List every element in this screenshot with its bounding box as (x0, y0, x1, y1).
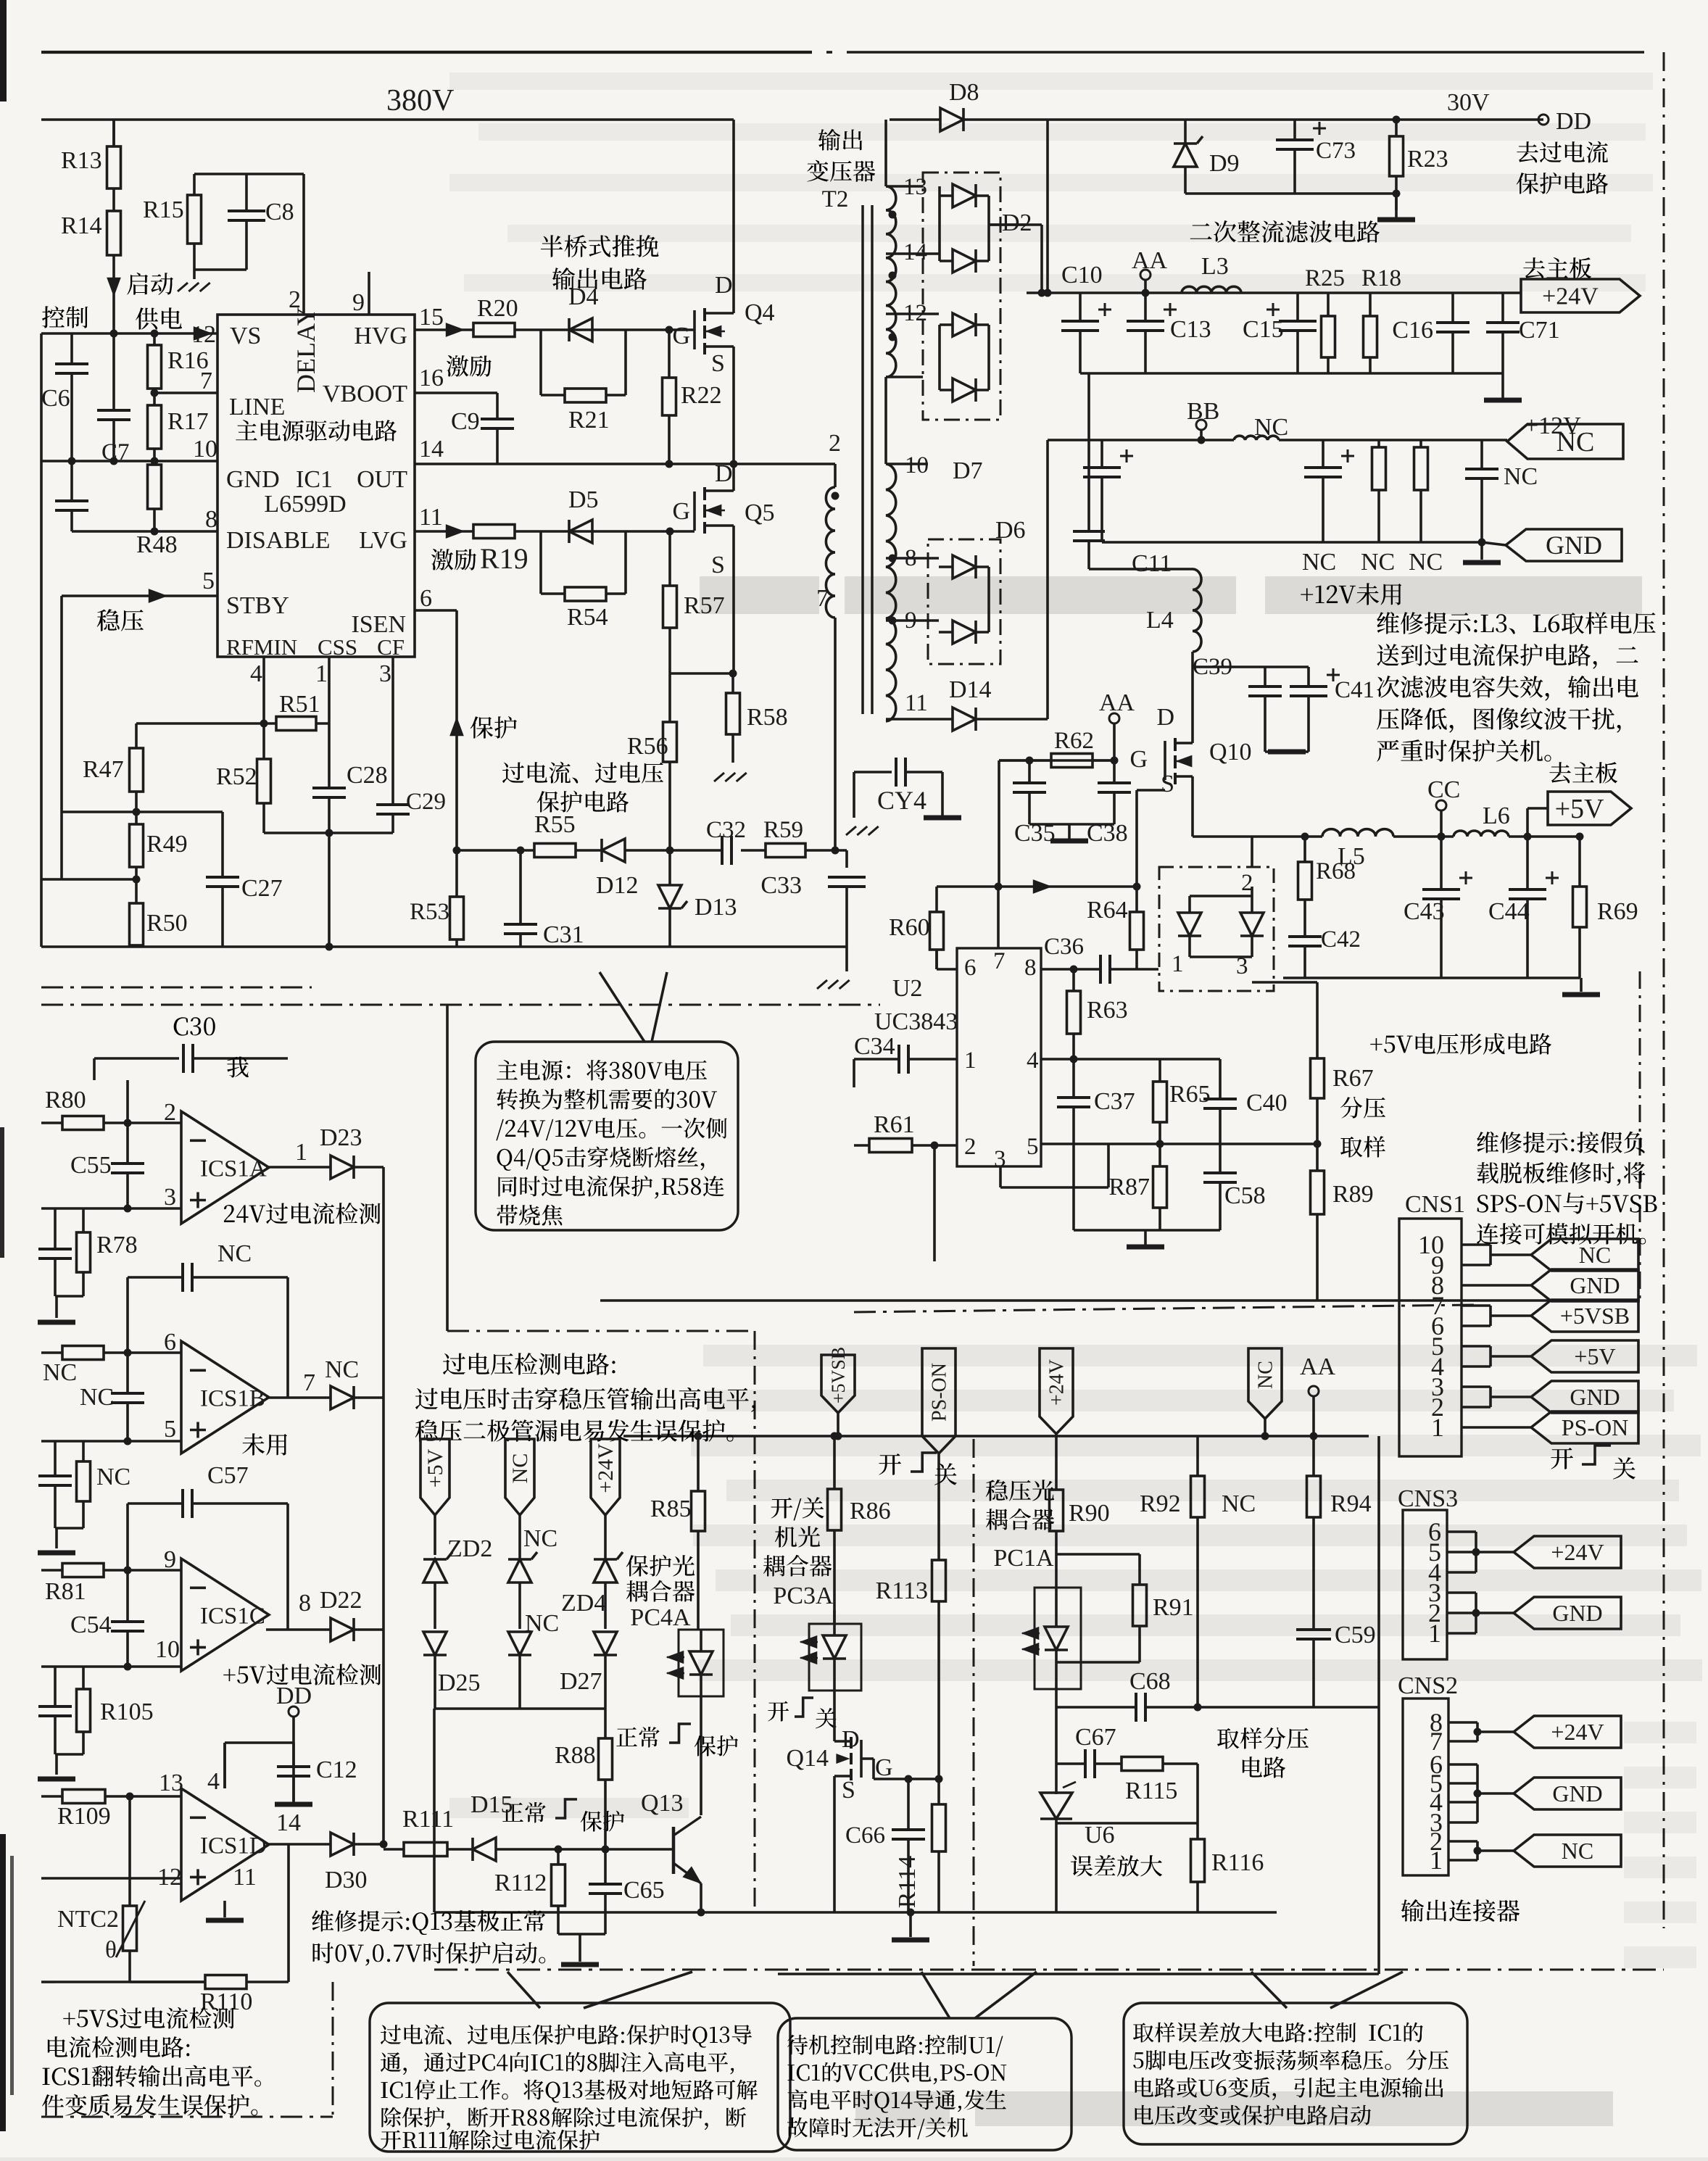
svg-text:2: 2 (829, 430, 841, 457)
svg-text:ZD4: ZD4 (561, 1590, 606, 1617)
wire D2/D7 output to 24V node (989, 223, 1042, 226)
wire ICS1D pin4 stub up (223, 1743, 226, 1788)
svg-text:NTC2: NTC2 (57, 1906, 119, 1933)
svg-text:R109: R109 (57, 1803, 111, 1830)
svg-text:NC: NC (325, 1356, 359, 1383)
node BB (1196, 420, 1206, 430)
svg-text:C40: C40 (1246, 1090, 1288, 1116)
svg-text:7: 7 (993, 948, 1006, 974)
svg-text:C58: C58 (1224, 1182, 1266, 1209)
svg-text:S: S (711, 350, 725, 377)
svg-text:R49: R49 (146, 831, 188, 858)
svg-text:6: 6 (164, 1329, 176, 1356)
wire R15/C8 frame to DELAY pin 2 (194, 173, 304, 175)
svg-text:R13: R13 (61, 147, 102, 174)
svg-text:R15: R15 (143, 196, 184, 223)
wire 5V filter bottom rail (1283, 976, 1580, 979)
svg-text:ICS1A: ICS1A (200, 1156, 267, 1182)
svg-text:R88: R88 (555, 1742, 596, 1769)
svg-text:NC: NC (508, 1453, 532, 1484)
svg-text:6: 6 (420, 585, 432, 612)
wire pin8 line through C36 (1041, 968, 1100, 971)
svg-text:D14: D14 (949, 676, 992, 703)
overvoltage detect text (443, 1353, 615, 1374)
wire pin10 line (41, 1665, 181, 1668)
wire PC4A to Q13 collector (700, 1696, 702, 1815)
label overcurrent/overvoltage block (502, 762, 663, 784)
resistor R19 series (472, 530, 475, 533)
wire pin9 stub (368, 272, 370, 315)
capacitor C13 electrolytic (1144, 293, 1147, 321)
wire C30 box corner (93, 1058, 96, 1080)
wire primary ground rail (41, 945, 847, 948)
svg-text:L4: L4 (1146, 607, 1174, 634)
wire ICS1D output (266, 1843, 330, 1846)
svg-text:C37: C37 (1094, 1088, 1135, 1115)
svg-text:+5V: +5V (423, 1448, 447, 1488)
svg-text:R67: R67 (1332, 1065, 1374, 1092)
svg-text:R55: R55 (534, 811, 576, 838)
flag +24V rotated (1040, 1348, 1073, 1434)
svg-text:C66: C66 (845, 1822, 885, 1849)
svg-text:R52: R52 (216, 763, 257, 790)
wire Q14 gate to R113/R114 node (861, 1757, 874, 1760)
node DD (1538, 115, 1549, 125)
wire Q5 source sense line (670, 672, 734, 675)
svg-text:PC3A: PC3A (773, 1583, 834, 1609)
svg-text:D7: D7 (953, 457, 983, 484)
svg-text:NC: NC (523, 1525, 557, 1552)
svg-text:R51: R51 (279, 691, 320, 718)
svg-text:ICS1C: ICS1C (200, 1604, 265, 1630)
svg-text:R59: R59 (763, 817, 803, 843)
wire 380V bus (41, 118, 734, 121)
bleed rows bottom-left under text (449, 1798, 689, 1818)
svg-text:2: 2 (964, 1134, 977, 1160)
wire AA/R62 network top (999, 759, 1114, 762)
flag +5V rotated zd2 (420, 1439, 449, 1515)
label 24V to mainboard (1523, 257, 1591, 278)
svg-text:R90: R90 (1069, 1500, 1110, 1527)
label 24V overcurrent detect (224, 1203, 381, 1224)
wire R51 left loop to R47 (136, 722, 264, 725)
wire control line into VS pin 12 (41, 332, 217, 335)
svg-text:NC: NC (1579, 1242, 1611, 1268)
svg-text:+24V: +24V (594, 1443, 618, 1493)
svg-text:NC: NC (1562, 1838, 1593, 1864)
wire 24V filter bottom rail (1080, 372, 1503, 375)
svg-text:R69: R69 (1597, 898, 1638, 925)
wire C11 to L4 (1089, 568, 1193, 571)
diode D16 right (1240, 913, 1264, 936)
svg-text:R16: R16 (167, 347, 209, 374)
svg-text:Q4: Q4 (745, 299, 775, 326)
svg-text:D25: D25 (438, 1670, 481, 1696)
rectifier D7 diode pair 1 (953, 313, 976, 336)
resistor 12V NC 1 (1377, 440, 1380, 447)
bleed-through faint table rows (449, 72, 1653, 90)
wire VCC feed line with arrow (937, 885, 1137, 888)
svg-text:VS: VS (230, 323, 261, 349)
svg-text:D15: D15 (470, 1791, 513, 1818)
svg-text:CF: CF (377, 634, 405, 660)
svg-text:NC: NC (43, 1359, 77, 1386)
svg-text:θ: θ (105, 1937, 117, 1963)
label +5V overcurrent detect (223, 1664, 381, 1685)
svg-text:CNS1: CNS1 (1405, 1191, 1465, 1218)
svg-text:C15: C15 (1243, 316, 1284, 343)
svg-text:NC: NC (80, 1384, 114, 1411)
ground below R23 (1377, 217, 1415, 223)
svg-text:4: 4 (1027, 1048, 1039, 1074)
svg-text:VBOOT: VBOOT (323, 381, 407, 407)
callout leader sampling (1251, 1972, 1287, 2008)
wire 12V rectified vertical (1046, 440, 1049, 719)
wire +5V flag stem (1527, 807, 1548, 810)
svg-text:R116: R116 (1211, 1849, 1264, 1876)
svg-text:R48: R48 (136, 531, 178, 558)
wire ICS1D pin11 ground (223, 1901, 226, 1917)
wire pin7 stub up (997, 887, 1000, 948)
page top rule (41, 51, 812, 54)
label jili 1 (447, 355, 492, 376)
CNS3 +24V flag (1447, 1530, 1476, 1533)
svg-text:Q14: Q14 (786, 1745, 829, 1772)
resistor 12V NC 2 (1419, 440, 1422, 447)
wire trafo bottom / C33 (845, 850, 848, 868)
rectifier D6 diode 2 (953, 621, 976, 644)
svg-text:C12: C12 (316, 1756, 357, 1783)
svg-text:PC1A: PC1A (993, 1545, 1054, 1572)
label sampling divider (1217, 1727, 1309, 1749)
svg-text:PS-ON: PS-ON (929, 1363, 951, 1422)
svg-text:LVG: LVG (359, 527, 407, 554)
op-amp IC1 L6599D main driver box (217, 315, 415, 657)
node AA sampling (1309, 1386, 1319, 1396)
label +5VS overcurrent (63, 2007, 234, 2029)
svg-text:R14: R14 (61, 212, 102, 239)
wire D16 to L5 rail (1251, 837, 1253, 867)
svg-text:ICS1B: ICS1B (200, 1386, 265, 1412)
svg-text:C42: C42 (1321, 926, 1361, 953)
section divider dash-dot (upper left) (41, 987, 312, 989)
svg-text:8: 8 (205, 506, 217, 533)
svg-text:CC: CC (1427, 776, 1460, 803)
wire Q4 drain drop (732, 120, 735, 308)
svg-text:12: 12 (191, 321, 216, 348)
svg-text:L3: L3 (1201, 253, 1229, 280)
svg-text:C10: C10 (1061, 262, 1103, 289)
svg-text:R47: R47 (83, 756, 124, 783)
label +5V forming circuit (1370, 1033, 1551, 1055)
CNS3 GND flag (1447, 1591, 1476, 1594)
svg-text:380V: 380V (386, 84, 454, 117)
wire R61 junction down (933, 1145, 936, 1261)
svg-text:NC: NC (217, 1240, 252, 1267)
wire STBY pin5 (62, 594, 217, 597)
svg-text:U2: U2 (892, 975, 923, 1002)
wire DISABLE pin8 line (72, 530, 217, 533)
svg-text:NC: NC (1409, 549, 1443, 576)
wire startup drop (112, 120, 115, 146)
diode D16 dashed box (1159, 867, 1274, 991)
bottom divider dash-dot (434, 1969, 1664, 1971)
label qidong (127, 273, 173, 295)
capacitor C30 series (174, 1017, 215, 1035)
svg-text:R78: R78 (96, 1232, 138, 1258)
svg-text:R113: R113 (876, 1577, 928, 1604)
label half-bridge block (541, 235, 659, 257)
svg-text:1: 1 (964, 1048, 977, 1074)
wire HVG pin15 to gate Q4 (415, 328, 473, 331)
node AA near C13 (1140, 270, 1151, 280)
svg-text:7: 7 (303, 1369, 315, 1396)
svg-text:R23: R23 (1407, 146, 1448, 173)
flag +24V rotated zd4 (591, 1439, 620, 1515)
flag GND 12V (1506, 529, 1622, 561)
ground at right of primary rail (817, 980, 827, 989)
CNS2 GND flag (1448, 1763, 1477, 1766)
svg-text:D12: D12 (596, 872, 639, 899)
svg-text:NC: NC (1222, 1490, 1256, 1517)
flag NC rotated (1248, 1348, 1282, 1419)
svg-text:GND: GND (1552, 1600, 1602, 1626)
wire R67 tap to U2 (1220, 1142, 1317, 1145)
wire C39/C41 top link (1193, 665, 1309, 668)
wire pin6 stub (935, 950, 938, 969)
CNS1 GND flag 2 (1462, 1385, 1491, 1388)
wire sampling divider top rail (974, 1435, 1369, 1438)
svg-text:C8: C8 (265, 199, 294, 225)
svg-text:5: 5 (1027, 1134, 1039, 1160)
transformer T2 secondary winding lower (884, 377, 887, 464)
ground below R58 (714, 773, 724, 781)
label secondary rectifier block (1190, 220, 1380, 243)
svg-text:S: S (1161, 771, 1174, 797)
wire current sense bus (457, 849, 534, 852)
svg-text:14: 14 (276, 1809, 301, 1836)
rectifier D2 diode pair 2 (953, 249, 976, 273)
svg-text:C43: C43 (1404, 898, 1445, 925)
svg-text:1: 1 (1172, 951, 1184, 977)
svg-text:R61: R61 (874, 1111, 915, 1138)
svg-text:R65: R65 (1169, 1081, 1211, 1108)
svg-text:R17: R17 (167, 408, 209, 435)
svg-text:R80: R80 (45, 1087, 86, 1113)
wire ISEN protection vertical (455, 610, 458, 850)
wire R113 bottom (937, 1601, 940, 1779)
wire pin4 net (1041, 1058, 1220, 1061)
svg-text:D30: D30 (325, 1867, 368, 1894)
optocoupler PC1A LED (1035, 1588, 1081, 1689)
svg-text:3: 3 (164, 1184, 176, 1211)
svg-text:C28: C28 (347, 762, 388, 789)
svg-text:R105: R105 (100, 1698, 154, 1725)
wire junction R47/R49 (133, 808, 141, 816)
svg-text:AA: AA (1300, 1353, 1336, 1380)
svg-text:4: 4 (250, 660, 262, 687)
rectifier D6 diode 1 (953, 555, 976, 578)
repair tip Q13 base (312, 1910, 545, 1935)
svg-text:C34: C34 (854, 1033, 895, 1060)
svg-text:+24V: +24V (1551, 1719, 1604, 1745)
capacitor below C7 on disable line (70, 461, 73, 501)
ground 24V filter (1501, 373, 1504, 400)
svg-text:RFMIN: RFMIN (226, 634, 297, 660)
svg-text:R54: R54 (567, 604, 608, 631)
svg-text:R115: R115 (1125, 1778, 1177, 1804)
svg-text:GND: GND (1570, 1272, 1620, 1298)
wire D16 bottoms (1190, 955, 1252, 958)
svg-text:Q5: Q5 (745, 499, 775, 526)
svg-text:NC: NC (1361, 549, 1395, 576)
zener NC mid (508, 1559, 531, 1583)
svg-text:+24V: +24V (1542, 283, 1599, 310)
svg-text:D2: D2 (1002, 210, 1032, 236)
wire pin5 net (1041, 1142, 1220, 1145)
wire startup arrow (112, 255, 115, 333)
svg-text:2: 2 (164, 1099, 176, 1126)
svg-text:CNS2: CNS2 (1398, 1672, 1458, 1699)
svg-text:+5VSB: +5VSB (828, 1347, 849, 1403)
callout box protect circuit (370, 2003, 790, 2152)
svg-text:11: 11 (233, 1864, 257, 1891)
label to mainboard +5V (1549, 762, 1617, 783)
svg-text:D: D (1156, 704, 1174, 731)
svg-text:C13: C13 (1170, 316, 1211, 343)
svg-text:−: − (40, 1966, 57, 1999)
svg-text:C68: C68 (1129, 1668, 1171, 1695)
CNS1 +5VSB flag (1462, 1304, 1491, 1307)
wire VBOOT pin16 and C9 (415, 391, 497, 394)
label switch opto (771, 1497, 824, 1520)
svg-text:R18: R18 (1361, 265, 1401, 291)
wire R62 branch vertical (998, 760, 1000, 887)
svg-text:G: G (1129, 746, 1148, 773)
svg-text:GND: GND (1546, 531, 1602, 560)
svg-text:T2: T2 (822, 186, 849, 212)
wire OUT pin14 node line (415, 463, 835, 465)
step label normal/protect 1 (616, 1727, 660, 1748)
callout box standby control (778, 2018, 1071, 2150)
svg-text:C65: C65 (623, 1877, 665, 1904)
callout box sampling error amp (1124, 2003, 1467, 2144)
wire VCC top rail to opto columns (623, 1435, 974, 1438)
svg-text:C59: C59 (1335, 1622, 1376, 1648)
wire C35/C38 bottom with ground (1029, 823, 1114, 826)
svg-text:R21: R21 (568, 407, 610, 434)
svg-text:D22: D22 (320, 1587, 362, 1614)
svg-text:HVG: HVG (354, 323, 407, 349)
svg-text:C41: C41 (1335, 677, 1375, 703)
svg-text:R112: R112 (494, 1870, 547, 1896)
wire D23 bus to top (446, 1005, 449, 1331)
svg-text:L6599D: L6599D (264, 491, 346, 518)
transformer T2 primary winding (834, 464, 837, 487)
wire LVG pin11 to gate Q5 (415, 530, 473, 533)
svg-text:5: 5 (164, 1416, 176, 1443)
svg-text:9: 9 (352, 289, 365, 316)
wire stby loop vertical (60, 596, 63, 879)
wire pin12 line (41, 1877, 181, 1880)
svg-text:C31: C31 (543, 921, 584, 948)
svg-text:+24V: +24V (1046, 1359, 1069, 1406)
CNS2 NC flag (1448, 1840, 1477, 1843)
svg-text:1: 1 (315, 660, 328, 687)
wire CSS pin1 stub (328, 657, 331, 788)
svg-text:10: 10 (193, 436, 217, 463)
svg-text:14: 14 (419, 436, 444, 463)
svg-text:C16: C16 (1392, 317, 1433, 344)
callout leader standby (921, 1972, 950, 2018)
svg-text:GND: GND (1552, 1780, 1602, 1807)
optocoupler PC4A label (626, 1555, 695, 1577)
svg-text:CSS: CSS (318, 634, 357, 660)
wire pin3 bottom jog (999, 1166, 1002, 1187)
svg-text:AA: AA (1132, 247, 1168, 274)
wire U2 ground bottom (1074, 1229, 1220, 1232)
switch step near PS-ON (879, 1453, 901, 1475)
svg-text:PC4A: PC4A (630, 1604, 691, 1631)
CNS1 NC flag (1462, 1243, 1491, 1246)
diode D16 left (1178, 913, 1201, 936)
wire LINE pin7 (154, 391, 217, 394)
svg-text:S: S (711, 552, 725, 578)
bleed-through paragraph texture middle-right (703, 1345, 1697, 1366)
rectifier D2 diode pair 1 (953, 184, 976, 207)
svg-text:R111: R111 (402, 1806, 454, 1833)
label output transformer T2 (818, 129, 863, 151)
svg-text:R57: R57 (684, 592, 725, 619)
svg-text:C73: C73 (1316, 138, 1356, 164)
dots on opto supply rail (695, 1432, 702, 1440)
svg-text:C27: C27 (241, 875, 283, 902)
svg-text:+5VSB: +5VSB (1560, 1303, 1630, 1329)
svg-text:R91: R91 (1153, 1594, 1194, 1621)
svg-text:ICS1D: ICS1D (200, 1833, 267, 1859)
wire sampling mid rail C68 line (1056, 1706, 1136, 1709)
svg-text:R62: R62 (1054, 728, 1094, 754)
ground stub on bus (909, 1912, 912, 1937)
svg-text:NC: NC (96, 1464, 130, 1490)
svg-text:D8: D8 (949, 79, 979, 106)
svg-text:15: 15 (419, 304, 444, 331)
svg-text:8: 8 (1024, 955, 1037, 981)
node AA upper (1109, 713, 1119, 723)
svg-text:6: 6 (964, 955, 977, 981)
wire RFMIN pin4 stub (262, 657, 265, 723)
svg-text:D: D (715, 272, 733, 299)
svg-text:R60: R60 (889, 914, 930, 941)
node DD bottom (289, 1706, 299, 1717)
label jili R19 (431, 549, 476, 570)
svg-text:GND: GND (1570, 1384, 1620, 1410)
svg-text:C71: C71 (1519, 317, 1560, 344)
svg-text:S: S (842, 1777, 855, 1804)
svg-text:R85: R85 (650, 1496, 692, 1522)
wire R112/C65 ground (558, 1933, 605, 1936)
svg-text:D6: D6 (995, 517, 1026, 544)
svg-text:C54: C54 (70, 1612, 112, 1638)
capacitor 12V electrolytic 2 (1322, 440, 1324, 468)
svg-text:5: 5 (202, 568, 215, 594)
svg-text:STBY: STBY (226, 592, 289, 619)
svg-text:R81: R81 (45, 1578, 86, 1605)
CNS2 +24V flag (1448, 1721, 1477, 1724)
svg-text:+5V: +5V (1574, 1343, 1615, 1369)
svg-text:R87: R87 (1108, 1174, 1150, 1200)
CNS1 +5V flag (1462, 1345, 1491, 1348)
